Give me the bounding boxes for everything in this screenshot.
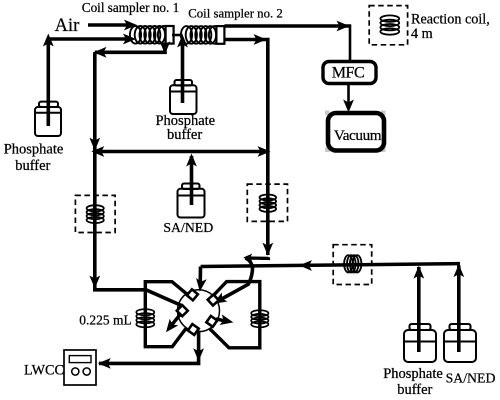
valve sample loop coil left [136,309,154,327]
svg-text:4 m: 4 m [411,26,433,42]
middle SA/NED bottle [178,184,205,218]
wire left phosphate riser [48,39,131,126]
bottom-right SA/NED bottle [444,324,476,362]
wire bottom-right phosphate riser [417,267,421,352]
valve port N [187,289,198,300]
valve right loop [210,282,260,348]
svg-text:Coil sampler no. 1: Coil sampler no. 1 [82,0,179,15]
right dashed coil box [247,184,287,221]
coil sampler no. 1 end block [166,26,174,44]
valve port S [188,324,199,335]
reaction coil symbol [380,15,399,34]
valve left loop [145,282,186,347]
left dashed coil box [75,195,115,232]
svg-text:buffer: buffer [167,127,202,143]
LWCC detector box [64,350,96,385]
svg-text:SA/NED: SA/NED [163,220,213,235]
wire feed down into valve top port [198,267,202,287]
svg-text:Phosphate: Phosphate [383,366,443,382]
wire curved hook into valve NE port [218,258,252,301]
valve internal arrow right [216,319,227,322]
MFC box [323,62,376,84]
svg-text:MFC: MFC [332,64,365,81]
valve rotor circle [178,290,220,332]
svg-text:Coil sampler no. 2: Coil sampler no. 2 [188,7,283,21]
left phosphate bottle [35,102,61,136]
bottom right dashed coil box [333,245,372,285]
left dashed box coil [87,205,104,223]
svg-text:Phosphate: Phosphate [4,142,64,158]
svg-text:LWCC: LWCC [24,363,64,379]
wire coil1 outlet down-left to long left line [95,44,165,53]
wire air inlet [88,23,132,27]
wire long bottom-right horizontal [201,264,460,267]
valve internal arrow left [170,314,181,328]
bottom right horizontal coil [344,255,361,272]
valve port NE [208,294,219,305]
bottom-right phosphate bottle [404,324,436,362]
right dashed box coil [260,195,277,212]
Vacuum box [325,111,386,153]
middle phosphate bottle [170,80,197,114]
wire coil2 lower outlet down right vertical [224,40,267,256]
valve port SE [206,316,217,327]
svg-text:0.225 mL: 0.225 mL [79,313,132,328]
svg-text:buffer: buffer [15,158,50,174]
svg-text:buffer: buffer [397,382,432,398]
wire middle phosphate riser [181,42,185,103]
valve sample loop coil right [251,310,268,327]
wire long left vertical line [95,52,183,306]
coil sampler no. 2 coil [181,26,220,44]
coil sampler no. 2 end block [216,26,224,44]
wire zigzag jog at right vertical bottom [246,257,269,258]
coil sampler no. 1 coil [130,26,169,44]
wire coil2 top outlet to MFC [224,24,351,28]
svg-text:SA/NED: SA/NED [446,370,496,385]
wire MFC to Vacuum [347,84,350,109]
valve port W [177,305,188,316]
wire middle SA/NED riser [190,156,194,205]
wire valve outlet to LWCC [99,331,199,364]
svg-text:Vacuum: Vacuum [334,127,382,144]
svg-text:Air: Air [55,16,80,36]
wire junction horizontal line [95,150,268,154]
reaction coil dashed box [369,6,407,45]
wire bottom-right SA/NED riser [457,266,461,353]
wire inter-coil connector [172,34,183,37]
